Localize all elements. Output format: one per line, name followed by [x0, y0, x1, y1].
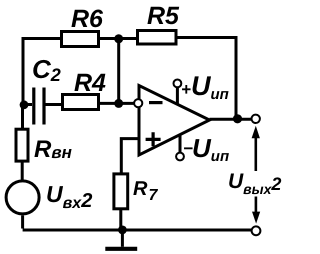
svg-text:+: +: [181, 80, 191, 99]
svg-text:R4: R4: [74, 69, 106, 97]
svg-text:R5: R5: [147, 2, 180, 30]
svg-text:R6: R6: [71, 5, 104, 33]
